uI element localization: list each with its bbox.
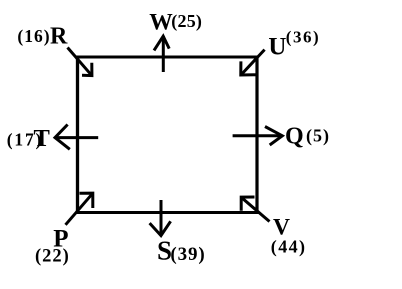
svg-text:(36): (36) (286, 28, 320, 47)
corner arrow at P (bottom-left, pointing into square) (66, 193, 93, 225)
svg-text:(16): (16) (17, 26, 50, 46)
svg-text:R: R (50, 24, 68, 50)
corner arrow at U (top-right, pointing into square) (241, 50, 265, 76)
corner arrow at R (top-left, pointing into square) (68, 48, 92, 76)
arrow W (top middle, pointing up out of square) (154, 36, 169, 72)
svg-text:(5): (5) (306, 125, 330, 146)
svg-text:(39): (39) (170, 244, 205, 265)
svg-text:U: U (268, 34, 286, 61)
svg-text:(25): (25) (171, 11, 202, 32)
corner arrow at V (bottom-right, pointing into square) (241, 197, 269, 222)
svg-text:Q: Q (285, 124, 304, 150)
square left edge (76, 56, 79, 215)
square top edge (76, 55, 258, 58)
square right edge (255, 56, 258, 215)
arrow T (left middle, pointing left out of square) (55, 125, 98, 150)
svg-text:(44): (44) (271, 237, 307, 258)
svg-text:T: T (34, 125, 50, 152)
arrow Q (right middle, pointing right out of square) (233, 127, 283, 146)
arrow S (bottom middle, pointing down out of square) (150, 200, 171, 236)
svg-text:W: W (149, 9, 173, 35)
square bottom edge (76, 211, 258, 214)
svg-text:(22): (22) (35, 247, 70, 267)
